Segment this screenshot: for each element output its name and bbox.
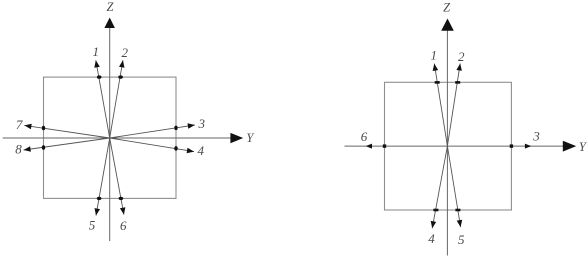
node dot arrow 7 on left edge: [42, 126, 45, 131]
wire arrow 5 (left): [96, 138, 110, 216]
wire arrow 6 (left): [110, 138, 124, 215]
marker arrow 4 on bottom edge: [433, 209, 438, 212]
Y axis line (right): [345, 145, 564, 147]
arrow 6 head on Y axis (right): [366, 144, 372, 149]
svg-text:1: 1: [93, 44, 100, 59]
wire arrow 1 (left): [96, 60, 110, 138]
wire arrow 8 (left): [24, 138, 110, 150]
wire arrow 4 (right): [432, 146, 447, 228]
svg-text:5: 5: [89, 217, 96, 232]
svg-text:4: 4: [198, 143, 205, 158]
node dot arrow 2 on top edge: [118, 75, 123, 78]
wire arrow 2 (left): [110, 60, 123, 138]
node dot arrow 1 on top edge: [97, 75, 102, 78]
node dot arrow 8 on left edge: [42, 145, 45, 150]
node dot arrow 3 on right edge: [174, 126, 177, 131]
svg-text:Y: Y: [246, 131, 255, 145]
square outline (left cross-section): [44, 77, 177, 198]
wire arrow 5 (right): [447, 146, 460, 227]
svg-text:6: 6: [361, 129, 368, 144]
Z axis line (left): [109, 28, 111, 241]
Y axis arrowhead (left): [230, 133, 243, 143]
Z axis arrowhead (left): [104, 18, 115, 29]
svg-text:1: 1: [431, 48, 438, 63]
Y axis arrowhead (right): [563, 141, 576, 152]
arrow 3 head on Y axis (right): [525, 144, 531, 149]
wire arrow 3 (left): [110, 125, 195, 138]
svg-text:3: 3: [197, 116, 205, 131]
marker on left edge of right square: [383, 144, 386, 147]
svg-text:5: 5: [458, 232, 465, 247]
Z axis line (right): [446, 30, 448, 255]
marker arrow 2 on top edge: [455, 81, 460, 84]
node dot arrow 5 on bottom edge: [97, 197, 102, 200]
Z axis arrowhead (right): [441, 19, 454, 31]
marker arrow 1 on top edge: [435, 81, 440, 84]
svg-text:Z: Z: [107, 0, 115, 14]
svg-text:6: 6: [120, 218, 127, 233]
Y axis line (left): [3, 137, 231, 139]
wire arrow 4 (left): [110, 138, 194, 152]
svg-text:2: 2: [458, 49, 465, 64]
node dot arrow 6 on bottom edge: [119, 197, 124, 200]
wire arrow 2 (right): [447, 64, 460, 147]
svg-text:2: 2: [122, 45, 129, 60]
svg-text:7: 7: [16, 117, 23, 132]
marker on right edge of right square: [510, 144, 513, 147]
node dot arrow 4 on right edge: [174, 146, 177, 151]
svg-text:3: 3: [532, 129, 540, 144]
svg-text:8: 8: [15, 142, 22, 157]
svg-text:4: 4: [428, 231, 435, 246]
svg-text:Y: Y: [579, 140, 588, 154]
svg-text:Z: Z: [443, 0, 451, 14]
wire arrow 7 (left): [24, 125, 109, 138]
marker arrow 5 on bottom edge: [455, 209, 460, 212]
square outline (right cross-section): [385, 82, 512, 210]
wire arrow 1 (right): [434, 64, 447, 147]
